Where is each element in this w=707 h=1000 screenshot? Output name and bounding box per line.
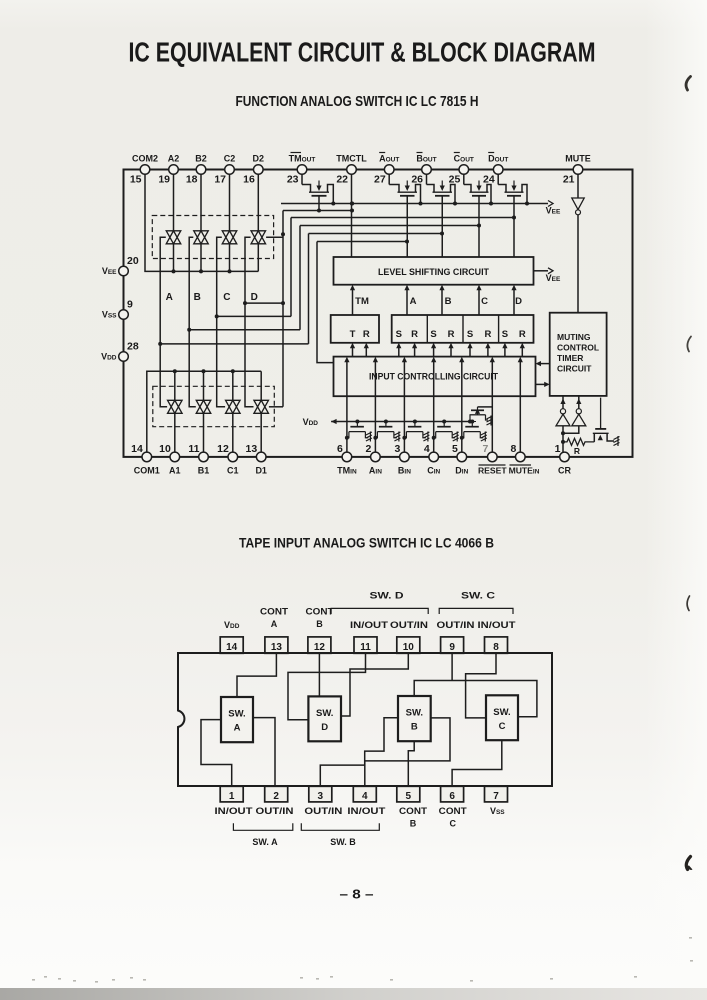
svg-text:19: 19 bbox=[158, 174, 170, 186]
svg-text:B1: B1 bbox=[198, 466, 210, 476]
wire latch input arrow bbox=[352, 346, 354, 357]
IC U1 LC7815H outer box bbox=[124, 170, 633, 457]
pin 12 C1 bbox=[228, 452, 238, 462]
inverter U3 bbox=[560, 409, 565, 414]
svg-text:6: 6 bbox=[449, 791, 455, 802]
substrate hatch bbox=[481, 432, 487, 442]
wire pin C2 to switch bbox=[229, 174, 231, 231]
svg-text:D: D bbox=[515, 296, 522, 307]
analog switch SWD2 bbox=[251, 231, 265, 244]
pin 23 TMOUT bbox=[297, 165, 307, 175]
wire pin13 to SW.A control bbox=[237, 653, 276, 697]
bracket SW.C pins bbox=[439, 608, 513, 614]
pin 17 C2 bbox=[225, 165, 235, 175]
svg-text:18: 18 bbox=[186, 174, 198, 186]
wire Q27 AOUT output bbox=[406, 197, 408, 258]
wire pin3 to SW.B bbox=[320, 718, 398, 786]
svg-text:5: 5 bbox=[406, 791, 412, 802]
wire pin1 to SW.A bbox=[201, 720, 232, 786]
pin 26 BOUT bbox=[422, 165, 432, 175]
svg-text:LEVEL SHIFTING CIRCUIT: LEVEL SHIFTING CIRCUIT bbox=[378, 267, 489, 278]
svg-text:OUT/IN: OUT/IN bbox=[437, 620, 475, 631]
svg-text:12: 12 bbox=[314, 642, 326, 653]
transistor QCin bbox=[442, 420, 446, 424]
bracket SW.D pins bbox=[331, 608, 428, 614]
pin 1 CR bbox=[560, 452, 570, 462]
transistor Q24 DOUT bbox=[497, 174, 499, 184]
wire input circuit to muting bbox=[536, 383, 548, 385]
svg-text:R: R bbox=[448, 329, 455, 340]
binding mark 2 bbox=[687, 337, 691, 352]
pin 2 AIN bbox=[371, 452, 381, 462]
svg-text:D: D bbox=[321, 722, 328, 733]
block switch SW.D bbox=[308, 696, 341, 741]
svg-text:9: 9 bbox=[449, 642, 455, 653]
wire pin5 to SW.B control bbox=[408, 741, 414, 786]
svg-text:D1: D1 bbox=[255, 466, 267, 476]
svg-text:25: 25 bbox=[449, 174, 461, 186]
wire control branch C bbox=[217, 315, 291, 317]
svg-text:IC EQUIVALENT CIRCUIT & BLOCK: IC EQUIVALENT CIRCUIT & BLOCK DIAGRAM bbox=[129, 37, 596, 68]
svg-text:OUT/IN: OUT/IN bbox=[390, 620, 428, 631]
pin box 11 bbox=[354, 637, 377, 653]
wire D1 switch right branch bbox=[269, 406, 283, 408]
wire pin12 to SW.D control bbox=[318, 653, 320, 696]
resistor R bbox=[563, 438, 594, 445]
transistor QAin bbox=[384, 420, 388, 424]
substrate hatch bbox=[423, 432, 429, 442]
wire input CIN to input circuit bbox=[433, 360, 435, 452]
svg-text:10: 10 bbox=[403, 642, 415, 653]
wire control line B bbox=[189, 237, 196, 406]
pin box 13 bbox=[265, 637, 288, 653]
pin box 12 bbox=[308, 637, 331, 653]
wire input BIN to input circuit bbox=[403, 360, 405, 452]
svg-text:16: 16 bbox=[243, 174, 255, 186]
wire B into level shifter bbox=[441, 288, 443, 316]
block switch SW.C bbox=[486, 695, 518, 740]
svg-text:OUT/IN: OUT/IN bbox=[256, 806, 294, 817]
pin 27 AOUT bbox=[384, 165, 394, 175]
wire RESET to input circuit bbox=[491, 360, 493, 452]
svg-text:27: 27 bbox=[374, 174, 386, 186]
binding mark 1 bbox=[686, 77, 690, 91]
svg-text:T: T bbox=[350, 329, 356, 340]
pin 11 B1 bbox=[199, 452, 209, 462]
wire VDD rail bbox=[331, 421, 470, 423]
svg-text:7: 7 bbox=[482, 443, 488, 455]
svg-text:23: 23 bbox=[287, 174, 299, 186]
svg-text:SW.: SW. bbox=[406, 708, 423, 719]
svg-text:CONT: CONT bbox=[439, 806, 467, 817]
wire MUTEIN to input circuit bbox=[519, 360, 521, 452]
wire latch input arrow bbox=[450, 346, 452, 357]
svg-text:B: B bbox=[316, 619, 323, 629]
pin 6 TMIN bbox=[342, 452, 352, 462]
transistor QTMin bbox=[355, 420, 359, 424]
wire staircase C bbox=[290, 218, 292, 317]
svg-text:MUTING: MUTING bbox=[557, 332, 591, 342]
svg-text:SW. A: SW. A bbox=[252, 837, 278, 847]
analog switch SWA2 bbox=[166, 231, 181, 244]
svg-text:12: 12 bbox=[217, 443, 229, 455]
analog switch SWC2 bbox=[222, 231, 237, 244]
svg-text:A: A bbox=[271, 619, 278, 629]
wire staircase vertical D bbox=[282, 211, 284, 407]
svg-text:COM1: COM1 bbox=[134, 466, 160, 476]
wire control line A bbox=[160, 237, 167, 406]
svg-text:7: 7 bbox=[493, 791, 499, 802]
pin 19 A2 bbox=[169, 165, 179, 175]
svg-text:CONT: CONT bbox=[399, 806, 427, 817]
svg-text:CIRCUIT: CIRCUIT bbox=[557, 364, 592, 374]
wire staircase to input controlling circuit bbox=[317, 242, 334, 363]
pin 13 D1 bbox=[256, 452, 266, 462]
svg-text:14: 14 bbox=[226, 642, 238, 653]
wire pin8 to SW.C bbox=[466, 653, 496, 718]
svg-text:B: B bbox=[194, 292, 201, 303]
wire control line D bbox=[245, 237, 254, 406]
wire inverter1 to CR pin bbox=[562, 426, 564, 452]
pin box 10 bbox=[397, 637, 420, 653]
svg-text:TAPE INPUT ANALOG SWITCH IC LC: TAPE INPUT ANALOG SWITCH IC LC 4066 B bbox=[239, 535, 494, 551]
svg-text:R: R bbox=[411, 329, 418, 340]
svg-text:4: 4 bbox=[362, 791, 368, 802]
svg-text:A: A bbox=[234, 723, 241, 734]
pin 20 VEE bbox=[119, 266, 129, 276]
pin 8 MUTEIN bbox=[516, 452, 526, 462]
wire Q23 TMOUT output bbox=[318, 197, 320, 211]
svg-text:TM: TM bbox=[355, 296, 369, 307]
wire control branch A bbox=[160, 343, 308, 345]
pin 25 COUT bbox=[459, 165, 469, 175]
svg-text:COM2: COM2 bbox=[132, 154, 158, 164]
transistor Q23 TMOUT bbox=[301, 174, 303, 184]
inverter U2 mute bbox=[572, 198, 584, 210]
block switch SW.A bbox=[221, 697, 253, 742]
svg-text:13: 13 bbox=[271, 642, 283, 653]
svg-text:FUNCTION ANALOG SWITCH IC LC 7: FUNCTION ANALOG SWITCH IC LC 7815 H bbox=[236, 93, 479, 110]
pin 4 CIN bbox=[429, 452, 439, 462]
substrate hatch bbox=[366, 432, 372, 442]
svg-text:IN/OUT: IN/OUT bbox=[478, 620, 516, 631]
pin box 2 bbox=[265, 786, 288, 802]
svg-text:2: 2 bbox=[366, 443, 372, 455]
wire A into level shifter bbox=[406, 288, 408, 316]
svg-text:4: 4 bbox=[424, 443, 430, 455]
svg-text:SW.: SW. bbox=[493, 707, 510, 718]
pin 10 A1 bbox=[170, 452, 180, 462]
svg-text:SW. B: SW. B bbox=[330, 837, 356, 847]
wire SW.B to pin4 bbox=[365, 718, 450, 786]
svg-text:– 8 –: – 8 – bbox=[340, 887, 374, 902]
svg-text:A: A bbox=[410, 296, 417, 307]
svg-text:26: 26 bbox=[411, 174, 423, 186]
wire C into level shifter bbox=[478, 288, 480, 316]
wire COM2 bus bbox=[145, 174, 258, 271]
pin box 3 bbox=[309, 786, 332, 802]
svg-text:SW.: SW. bbox=[316, 708, 333, 719]
wire Q25 COUT output bbox=[478, 197, 480, 258]
svg-text:C2: C2 bbox=[224, 154, 236, 164]
svg-text:C: C bbox=[499, 721, 506, 732]
analog switch SWB1 bbox=[196, 400, 211, 413]
analog switch SWA1 bbox=[168, 400, 183, 413]
dashed box upper switch group bbox=[152, 216, 273, 259]
block SR latches bbox=[392, 315, 534, 343]
wire pin A2 to switch bbox=[173, 174, 175, 231]
wire TM into level shifter bbox=[352, 288, 354, 316]
block switch SW.B bbox=[398, 696, 431, 741]
substrate hatch CR bbox=[614, 436, 620, 446]
pin 7 RESET bbox=[488, 452, 498, 462]
wire VEE output of level shifter bbox=[534, 270, 549, 272]
transistor Q CR bbox=[593, 433, 595, 442]
wire inverter to muting circuit bbox=[577, 215, 579, 313]
wire pin C1 to switch bbox=[232, 413, 234, 452]
wire control branch D bbox=[245, 302, 283, 304]
transistor Q26 BOUT bbox=[426, 174, 428, 184]
wire inverter2 branch bbox=[563, 426, 579, 434]
wire latch input arrow bbox=[414, 346, 416, 357]
wire muting out 1 bbox=[562, 396, 564, 409]
svg-text:24: 24 bbox=[483, 174, 495, 186]
svg-text:C: C bbox=[223, 292, 230, 303]
svg-text:CONT: CONT bbox=[306, 607, 334, 618]
svg-text:A: A bbox=[166, 292, 173, 303]
wire latch input arrow bbox=[469, 346, 471, 357]
wire muting to input circuit bbox=[538, 363, 550, 365]
wire latch input arrow bbox=[521, 346, 523, 357]
substrate hatch bbox=[394, 432, 400, 442]
svg-text:28: 28 bbox=[127, 341, 139, 353]
svg-text:IN/OUT: IN/OUT bbox=[347, 806, 385, 817]
svg-text:2: 2 bbox=[273, 791, 279, 802]
block muting control timer circuit bbox=[550, 313, 607, 396]
dashed box lower switch group bbox=[153, 386, 274, 426]
transistor QDin bbox=[470, 420, 474, 424]
wire VEE rail bbox=[281, 203, 548, 205]
svg-text:10: 10 bbox=[159, 443, 171, 455]
wire control line C bbox=[217, 237, 225, 406]
wire MUTE pin to inverter bbox=[577, 174, 579, 198]
wire staircase B bbox=[299, 226, 301, 330]
transistor QBin bbox=[413, 420, 417, 424]
svg-text:RESET: RESET bbox=[478, 466, 507, 476]
inverter U4 bbox=[576, 409, 581, 414]
wire bus horizontal D out bbox=[291, 217, 514, 219]
pin box 9 bbox=[441, 637, 464, 653]
wire pin B2 to switch bbox=[200, 174, 202, 231]
svg-text:17: 17 bbox=[214, 174, 226, 186]
wire latch input arrow bbox=[433, 346, 435, 357]
wire input TMIN to input circuit bbox=[346, 360, 348, 452]
svg-text:22: 22 bbox=[336, 174, 348, 186]
svg-text:B: B bbox=[411, 722, 418, 733]
scan edge bar bbox=[0, 988, 707, 1000]
pin box 14 bbox=[220, 637, 243, 653]
bracket SW.A bbox=[233, 823, 292, 830]
wire pin D1 to switch bbox=[260, 413, 262, 452]
transistor Q25 COUT bbox=[463, 174, 465, 184]
wire pin11 to SW.D bbox=[288, 653, 366, 720]
svg-text:R: R bbox=[363, 329, 370, 340]
wire SW.D to pin10 bbox=[341, 653, 408, 716]
wire latch input arrow bbox=[365, 346, 367, 357]
svg-text:S: S bbox=[396, 329, 402, 340]
pin 3 BIN bbox=[400, 452, 410, 462]
pin box 8 bbox=[485, 637, 508, 653]
substrate hatch reset bbox=[487, 416, 493, 426]
wire Q24 DOUT output bbox=[513, 197, 515, 258]
svg-text:R: R bbox=[519, 329, 526, 340]
svg-text:3: 3 bbox=[395, 443, 401, 455]
wire bus horizontal TM bbox=[283, 210, 352, 212]
svg-text:OUT/IN: OUT/IN bbox=[304, 806, 342, 817]
wire D2 switch right branch bbox=[266, 236, 283, 238]
analog switch SWB2 bbox=[194, 231, 209, 244]
wire COM1 bus bbox=[147, 371, 261, 452]
IC U5 LC4066B body bbox=[178, 653, 552, 786]
svg-text:B: B bbox=[410, 819, 417, 829]
svg-text:13: 13 bbox=[246, 443, 258, 455]
pin 9 VSS bbox=[119, 310, 129, 320]
pin 22 TMCTL bbox=[347, 165, 357, 175]
svg-text:1: 1 bbox=[229, 791, 235, 802]
svg-text:11: 11 bbox=[360, 642, 371, 653]
pin 21 MUTE bbox=[573, 165, 583, 175]
svg-text:8: 8 bbox=[510, 443, 516, 455]
substrate hatch bbox=[453, 432, 459, 442]
pin box 4 bbox=[353, 786, 376, 802]
svg-text:8: 8 bbox=[493, 642, 499, 653]
svg-text:C1: C1 bbox=[227, 466, 239, 476]
analog switch SWC1 bbox=[226, 400, 241, 413]
pin box 7 bbox=[485, 786, 508, 802]
svg-text:C: C bbox=[449, 819, 456, 829]
wire latch input arrow bbox=[487, 346, 489, 357]
transistor Q27 AOUT bbox=[388, 174, 390, 184]
binding mark 3 bbox=[686, 857, 690, 870]
svg-text:6: 6 bbox=[337, 443, 343, 455]
wire pin9 tie SW.B top and SW.C bbox=[414, 681, 537, 717]
pin 14 COM1 bbox=[142, 452, 152, 462]
wire pin D2 to switch bbox=[257, 174, 259, 231]
svg-text:15: 15 bbox=[130, 174, 142, 186]
svg-text:CONTROL: CONTROL bbox=[557, 343, 599, 353]
pin 24 DOUT bbox=[493, 165, 503, 175]
svg-text:S: S bbox=[502, 329, 508, 340]
pin box 1 bbox=[220, 786, 243, 802]
wire Q26 BOUT output bbox=[441, 197, 443, 258]
pin 28 VDD bbox=[119, 352, 129, 362]
pin box 6 bbox=[441, 786, 464, 802]
svg-text:R: R bbox=[574, 446, 580, 456]
block TR latch bbox=[331, 315, 379, 343]
svg-text:D2: D2 bbox=[253, 154, 265, 164]
pin 18 B2 bbox=[196, 165, 206, 175]
svg-text:IN/OUT: IN/OUT bbox=[215, 806, 253, 817]
svg-text:11: 11 bbox=[188, 443, 199, 455]
svg-text:5: 5 bbox=[452, 443, 458, 455]
bracket SW.B bbox=[301, 823, 379, 830]
transistor Q reset bbox=[478, 406, 493, 408]
svg-text:TMCTL: TMCTL bbox=[336, 154, 367, 164]
wire bus horizontal A out bbox=[317, 241, 407, 243]
svg-text:TIMER: TIMER bbox=[557, 353, 583, 363]
svg-text:14: 14 bbox=[131, 443, 143, 455]
block level shifting circuit bbox=[334, 257, 534, 285]
svg-text:C: C bbox=[481, 296, 488, 307]
svg-text:3: 3 bbox=[318, 791, 324, 802]
wire D into level shifter bbox=[513, 288, 515, 316]
svg-text:A1: A1 bbox=[169, 466, 181, 476]
svg-text:S: S bbox=[467, 329, 473, 340]
wire pin B1 to switch bbox=[203, 413, 205, 452]
block input controlling circuit bbox=[334, 357, 536, 397]
analog switch SWD1 bbox=[254, 400, 269, 413]
svg-text:CONT: CONT bbox=[260, 607, 288, 618]
wire SW.A to pin2 bbox=[253, 718, 275, 786]
svg-text:20: 20 bbox=[127, 255, 139, 267]
wire SW.C to pin6 control bbox=[452, 740, 502, 786]
svg-text:B2: B2 bbox=[195, 154, 207, 164]
pin 5 DIN bbox=[457, 452, 467, 462]
wire muting out 2 bbox=[578, 396, 580, 409]
svg-text:S: S bbox=[430, 329, 436, 340]
svg-text:SW. D: SW. D bbox=[370, 591, 404, 602]
binding mark 4 bbox=[687, 596, 689, 611]
pin 16 D2 bbox=[253, 165, 263, 175]
svg-text:21: 21 bbox=[563, 174, 575, 186]
wire input AIN to input circuit bbox=[374, 360, 376, 452]
svg-text:MUTE: MUTE bbox=[565, 154, 591, 164]
wire pin A1 to switch bbox=[174, 413, 176, 452]
wire staircase A bbox=[308, 234, 310, 344]
svg-text:A2: A2 bbox=[168, 154, 180, 164]
pin 15 COM2 bbox=[140, 165, 150, 175]
wire latch input arrow bbox=[398, 346, 400, 357]
svg-text:B: B bbox=[445, 296, 452, 307]
svg-text:IN/OUT: IN/OUT bbox=[350, 620, 388, 631]
wire control branch B bbox=[189, 329, 300, 331]
svg-text:9: 9 bbox=[127, 299, 133, 311]
wire latch input arrow bbox=[504, 346, 506, 357]
svg-text:D: D bbox=[251, 292, 258, 303]
svg-text:SW. C: SW. C bbox=[461, 591, 495, 602]
wire input DIN to input circuit bbox=[461, 360, 463, 452]
svg-text:CR: CR bbox=[558, 466, 571, 476]
svg-text:SW.: SW. bbox=[228, 709, 245, 720]
wire bus horizontal B out bbox=[309, 233, 443, 235]
svg-text:R: R bbox=[484, 329, 491, 340]
svg-text:1: 1 bbox=[555, 443, 561, 455]
wire bus horizontal C out bbox=[300, 225, 479, 227]
wire TMCTL to level shifter bbox=[351, 174, 353, 257]
pin box 5 bbox=[397, 786, 420, 802]
